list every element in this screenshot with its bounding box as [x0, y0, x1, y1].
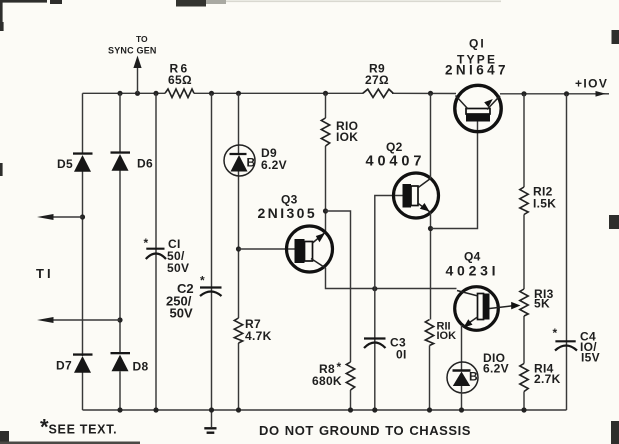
resistor R9 [363, 62, 393, 98]
node dot arrow2 x120 y320 [117, 317, 122, 322]
svg-text:I5V: I5V [581, 351, 600, 365]
wire left vertical x120 [119, 93, 121, 410]
node dot x374 y288 [372, 286, 377, 291]
svg-text:DO NOT GROUND TO CHASSIS: DO NOT GROUND TO CHASSIS [259, 423, 471, 438]
resistor R8 [312, 360, 355, 390]
node dot bottom rail x211 C2/ground [209, 407, 214, 412]
node dot bottom rail x120 D8 [117, 407, 122, 412]
transistor Q4 [446, 250, 521, 331]
svg-text:Q2: Q2 [386, 140, 403, 154]
svg-text:680K: 680K [312, 374, 342, 388]
svg-text:B: B [247, 156, 256, 170]
svg-text:*: * [553, 326, 558, 340]
node dot bottom rail x524 R14 [521, 407, 526, 412]
wire T1 upper tap arrow [37, 214, 83, 220]
scan mark bottom-left corner [0, 431, 9, 444]
wire T1 lower tap arrow [37, 317, 120, 323]
diode D5 [57, 152, 93, 171]
scan mark top-middle bar [176, 0, 206, 7]
transistor Q3 [258, 193, 333, 273]
svg-text:D8: D8 [133, 360, 149, 374]
node dot Q3 base x238 y249 [236, 246, 241, 251]
scan mark bottom-right corner [611, 421, 619, 444]
node dot bottom rail x156 C1 [153, 407, 158, 412]
node dot rail x156 C1 [153, 91, 158, 96]
wire D9/R7 branch x238 [238, 93, 240, 410]
node dot bottom rail x350 R8 [348, 407, 353, 412]
svg-text:D5: D5 [57, 157, 73, 171]
resistor R11 [425, 320, 456, 411]
node dot rail x238 D9 [236, 91, 241, 96]
diode D8 [111, 352, 149, 374]
transistor Q1 [445, 37, 509, 132]
node dot rail x120 [117, 91, 122, 96]
svg-text:2.7K: 2.7K [534, 372, 561, 386]
node dot arrow1 x82 y217 [80, 214, 85, 219]
svg-text:50V: 50V [167, 261, 189, 275]
resistor R10 [321, 118, 358, 146]
wire R12/R13/R14 chain x524 [523, 94, 525, 410]
wire bottom rail [83, 409, 567, 411]
zener D10 [447, 351, 509, 410]
svg-text:B: B [469, 370, 478, 384]
svg-text:Q4: Q4 [464, 250, 481, 264]
diode D7 [56, 353, 93, 372]
svg-text:2NI305: 2NI305 [258, 205, 318, 221]
capacitor C4 [553, 326, 600, 365]
svg-text:+IOV: +IOV [575, 77, 608, 91]
ground [204, 428, 216, 432]
node dot bottom rail x461 D10 [459, 407, 464, 412]
svg-text:SEE TEXT.: SEE TEXT. [49, 423, 118, 437]
svg-text:QI: QI [469, 37, 486, 51]
node dot bottom rail x238 R7 [236, 407, 241, 412]
svg-text:*: * [200, 274, 205, 288]
svg-text:6.2V: 6.2V [261, 158, 287, 172]
capacitor C1 [144, 236, 190, 275]
wire C3 drop [374, 289, 376, 410]
node dot rail x566 C4 [564, 91, 569, 96]
resistor R6 [165, 62, 194, 98]
scan mark left edge middle [0, 163, 3, 176]
svg-text:*: * [144, 236, 149, 250]
wire top rail left segment [83, 92, 610, 95]
svg-text:IOK: IOK [336, 130, 358, 144]
svg-text:0I: 0I [396, 348, 407, 362]
scan mark right edge upper [612, 30, 619, 44]
node dot bottom rail x429 R11 [427, 407, 432, 412]
resistor R14 [520, 362, 561, 392]
svg-text:4023I: 4023I [446, 263, 500, 279]
node dot rail x430 Q2 [428, 91, 433, 96]
svg-text:40407: 40407 [366, 154, 426, 170]
svg-text:2NI647: 2NI647 [445, 63, 509, 78]
wire to sync gen with up arrow [108, 34, 157, 93]
wire Q4 emitter to D10 [461, 325, 463, 370]
svg-text:D6: D6 [137, 157, 153, 171]
capacitor C2 [166, 274, 222, 321]
wire C1 branch x156 [155, 93, 157, 410]
svg-text:D7: D7 [56, 359, 72, 373]
node dot rail x524 R12 [521, 91, 526, 96]
capacitor C3 [364, 336, 407, 362]
wire Q2 base riser [375, 196, 403, 289]
svg-text:50V: 50V [170, 306, 193, 321]
scan mark top-left corner [0, 0, 62, 31]
resistor R12 [520, 185, 556, 215]
svg-text:TI: TI [36, 266, 54, 281]
svg-text:*: * [337, 360, 342, 374]
resistor R7 [234, 317, 271, 343]
wire R10 branch x325 [325, 93, 327, 232]
+10V arrow [596, 91, 606, 97]
transistor Q2 [366, 140, 439, 218]
svg-text:I.5K: I.5K [533, 197, 556, 211]
node dot rail x325 R10 [323, 91, 328, 96]
scan mark right edge middle [609, 215, 619, 229]
wire Q1 base link [431, 122, 478, 229]
node dot bottom rail x374 C3 [372, 407, 377, 412]
svg-text:5K: 5K [534, 297, 550, 311]
svg-text:SYNC GEN: SYNC GEN [108, 46, 157, 56]
wire C2 branch x211 [211, 93, 213, 427]
resistor R13 potentiometer [520, 287, 554, 316]
svg-text:65Ω: 65Ω [168, 73, 192, 87]
svg-text:6.2V: 6.2V [483, 362, 509, 376]
wire Q3 base [239, 248, 296, 250]
wire Q2 emitter drop [430, 213, 432, 320]
diode D6 [111, 151, 153, 170]
svg-text:27Ω: 27Ω [365, 73, 389, 87]
wire Q2 collector riser [430, 93, 432, 178]
zener D9 [224, 145, 287, 176]
node dot x430 y228 [428, 226, 433, 231]
node dot Q3 emitter junction x325 y211 [323, 208, 328, 213]
node dot rail x211 C2 [209, 91, 214, 96]
wire emitter junction to R8 branch [326, 211, 351, 410]
svg-text:TO: TO [136, 34, 148, 44]
svg-text:4.7K: 4.7K [245, 329, 272, 343]
node dot rail x137.5 sync [135, 91, 140, 96]
wire left vertical x82 [82, 93, 84, 410]
wire C4 branch x566 [566, 94, 568, 410]
wire Q3 collector down and right [326, 268, 457, 289]
svg-text:IOK: IOK [437, 330, 457, 342]
